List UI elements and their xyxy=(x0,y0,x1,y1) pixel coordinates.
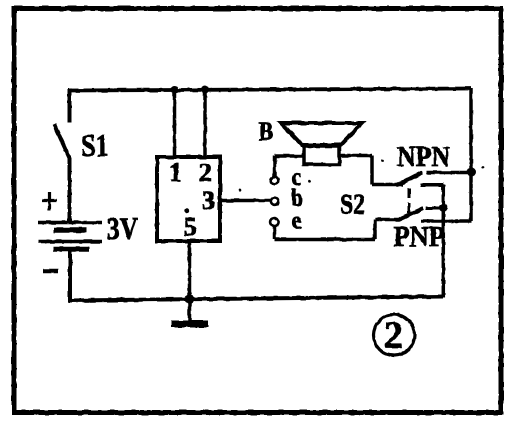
svg-text:3V: 3V xyxy=(107,210,138,246)
svg-text:S1: S1 xyxy=(81,127,109,163)
svg-text:5: 5 xyxy=(184,213,197,242)
svg-text:3: 3 xyxy=(202,186,216,215)
svg-text:NPN: NPN xyxy=(397,141,450,173)
svg-text:1: 1 xyxy=(169,158,182,187)
svg-text:S2: S2 xyxy=(340,189,365,221)
svg-text:PNP: PNP xyxy=(394,222,446,253)
svg-text:B: B xyxy=(259,117,274,146)
svg-text:2: 2 xyxy=(384,315,403,357)
svg-text:2: 2 xyxy=(199,158,213,187)
svg-text:e: e xyxy=(292,208,302,235)
